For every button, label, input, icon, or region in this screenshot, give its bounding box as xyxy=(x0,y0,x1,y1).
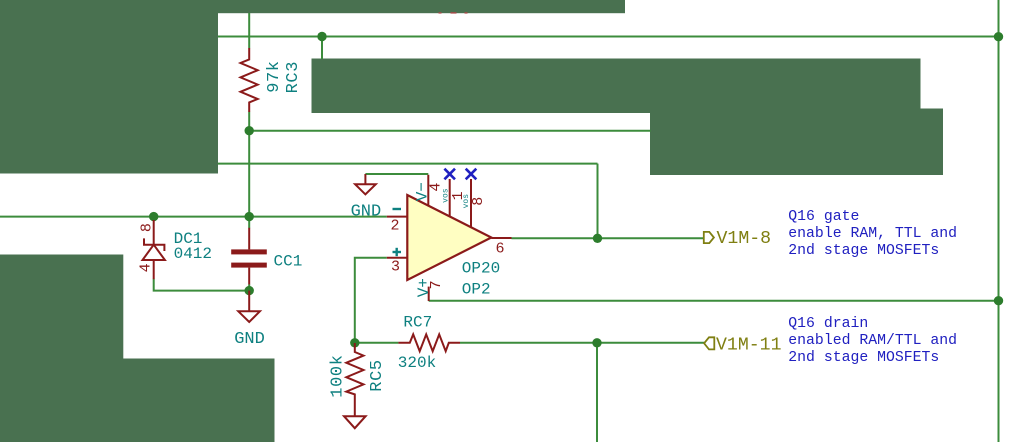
capacitor CC1 plates xyxy=(231,249,267,267)
no-connect cross pin 1 xyxy=(444,169,455,180)
svg-text:3: 3 xyxy=(391,259,400,276)
svg-text:2: 2 xyxy=(390,218,399,235)
svg-text:GND: GND xyxy=(351,203,382,222)
resistor RC7 xyxy=(398,334,460,351)
ground symbol below RC5 xyxy=(344,416,366,428)
wire V+ rail to right xyxy=(429,300,999,302)
wire RC7 to label V1M-11 xyxy=(460,342,704,344)
hierarchical label V1M-11 arrow xyxy=(704,337,714,349)
ground symbol below CC1 xyxy=(248,291,250,312)
svg-text:RC3: RC3 xyxy=(284,61,303,93)
svg-text:6: 6 xyxy=(495,240,504,257)
svg-text:4: 4 xyxy=(138,263,155,272)
junction op-amp output xyxy=(593,234,602,243)
ground symbol at op-amp V- xyxy=(364,174,366,184)
wire upper feedback horizontal xyxy=(218,163,598,165)
svg-text:RC5: RC5 xyxy=(368,359,387,391)
junction RC5 top xyxy=(350,338,359,347)
op-amp plus symbol xyxy=(393,248,402,256)
wire capacitor lower stub xyxy=(248,284,250,290)
svg-text:2nd stage MOSFETs: 2nd stage MOSFETs xyxy=(788,243,939,259)
svg-text:enable RAM, TTL and: enable RAM, TTL and xyxy=(788,226,957,242)
junction diode top xyxy=(149,212,158,221)
svg-text:OP2: OP2 xyxy=(462,280,491,298)
wire RC3 bottom vertical xyxy=(248,112,250,228)
svg-text:320k: 320k xyxy=(398,354,436,372)
svg-text:enabled RAM/TTL and: enabled RAM/TTL and xyxy=(788,333,957,349)
diode DC1 (zener) xyxy=(153,220,155,245)
wire op-amp V- to GND bracket xyxy=(365,173,428,175)
wire mid horizontal to covered block xyxy=(249,130,650,132)
wire output to label V1M-8 xyxy=(512,237,705,239)
wire feedback vertical xyxy=(597,164,599,239)
wire right vertical xyxy=(998,0,1000,442)
junction V+ rail right xyxy=(994,296,1003,305)
pin 3 non-inverting input xyxy=(387,257,408,259)
svg-text:2nd stage MOSFETs: 2nd stage MOSFETs xyxy=(788,350,939,366)
partially hidden text marks xyxy=(439,12,468,13)
resistor RC5 xyxy=(346,343,363,416)
svg-text:8: 8 xyxy=(470,197,487,206)
pin 4 V- power xyxy=(427,175,429,206)
svg-text:GND: GND xyxy=(234,330,265,349)
redacted area left middle xyxy=(0,255,123,359)
svg-text:Q16 drain: Q16 drain xyxy=(788,316,868,332)
wire RC3 top stub xyxy=(248,13,250,48)
svg-text:7: 7 xyxy=(428,280,445,289)
redacted area bottom-left xyxy=(0,359,275,442)
svg-text:RC7: RC7 xyxy=(403,313,432,331)
wire RC5 node to RC7 xyxy=(355,342,399,344)
junction RC7 right xyxy=(592,338,601,347)
svg-text:0412: 0412 xyxy=(174,245,212,263)
pin 1 vos (no connect) xyxy=(449,179,451,216)
pin 2 inverting input xyxy=(387,216,408,218)
redacted area top-left xyxy=(0,0,218,174)
redacted area top bar xyxy=(218,0,625,13)
junction top right corner xyxy=(994,32,1003,41)
pin 6 output xyxy=(491,237,511,239)
hierarchical label V1M-8 arrow xyxy=(704,232,714,243)
junction capacitor bottom xyxy=(245,286,254,295)
junction top bus drop xyxy=(317,32,326,41)
svg-text:OP20: OP20 xyxy=(462,259,500,277)
svg-text:Q16 gate: Q16 gate xyxy=(788,209,859,225)
no-connect cross pin 8 xyxy=(466,169,477,180)
op-amp U-OP2 body xyxy=(407,195,491,280)
wire inverting input horizontal xyxy=(0,216,387,218)
svg-text:CC1: CC1 xyxy=(274,252,303,270)
capacitor CC1 leads xyxy=(248,228,250,285)
junction RC3 bottom xyxy=(245,126,254,135)
wire non-inverting input xyxy=(355,258,387,343)
svg-text:100k: 100k xyxy=(328,354,347,397)
redacted area middle right xyxy=(650,109,943,176)
wire lower vertical drop xyxy=(596,343,598,442)
wire node A vertical drop xyxy=(321,37,323,60)
wire diode to capacitor bottom xyxy=(154,279,250,291)
pin 8 vos (no connect) xyxy=(470,179,472,227)
svg-text:V1M-8: V1M-8 xyxy=(717,229,772,249)
resistor RC3 xyxy=(241,48,258,112)
pin 7 V+ power xyxy=(428,287,430,301)
wire top horizontal bus xyxy=(218,36,999,38)
svg-text:97k: 97k xyxy=(265,60,284,92)
svg-text:V1M-11: V1M-11 xyxy=(716,335,782,355)
op-amp minus symbol xyxy=(393,208,402,210)
svg-text:8: 8 xyxy=(139,223,156,232)
junction capacitor top xyxy=(245,212,254,221)
redacted area upper middle xyxy=(312,59,921,114)
